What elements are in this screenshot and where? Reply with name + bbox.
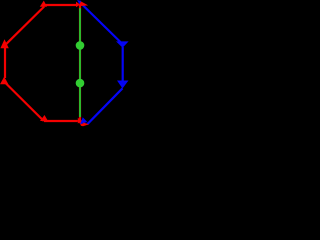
node B blue arrowhead up-left xyxy=(77,0,81,4)
node E red arrowhead down xyxy=(77,120,84,125)
node F red triangle xyxy=(40,115,48,121)
node H red triangle xyxy=(0,39,8,48)
wire green chord xyxy=(79,8,81,117)
node green circle upper xyxy=(76,41,85,50)
wire red diagonal H-A xyxy=(6,7,45,45)
wire blue right edge C-D xyxy=(122,47,124,81)
wire red left edge G-H xyxy=(4,48,6,78)
wire red diagonal G-F xyxy=(5,82,44,121)
wire blue diagonal B-C xyxy=(82,4,122,44)
node B red arrowhead diagonal xyxy=(79,1,88,6)
node A red triangle xyxy=(40,1,47,7)
node E red arrowhead right xyxy=(78,118,82,124)
node G red triangle xyxy=(0,77,8,85)
node E blue arrowhead down-left xyxy=(80,117,87,124)
wire red bottom edge F-E xyxy=(44,120,78,122)
wire red chord B-E xyxy=(79,5,81,120)
node green circle lower xyxy=(76,79,85,88)
node B red arrowhead right xyxy=(76,2,80,8)
wire blue diagonal D-E xyxy=(87,88,122,124)
node C blue arrowhead down xyxy=(116,41,129,47)
node D blue arrowhead down xyxy=(117,81,129,89)
node E red arrowhead diagonal xyxy=(83,123,89,127)
node E red bar under blue apex xyxy=(80,123,85,126)
wire red top edge A-B xyxy=(45,4,77,6)
